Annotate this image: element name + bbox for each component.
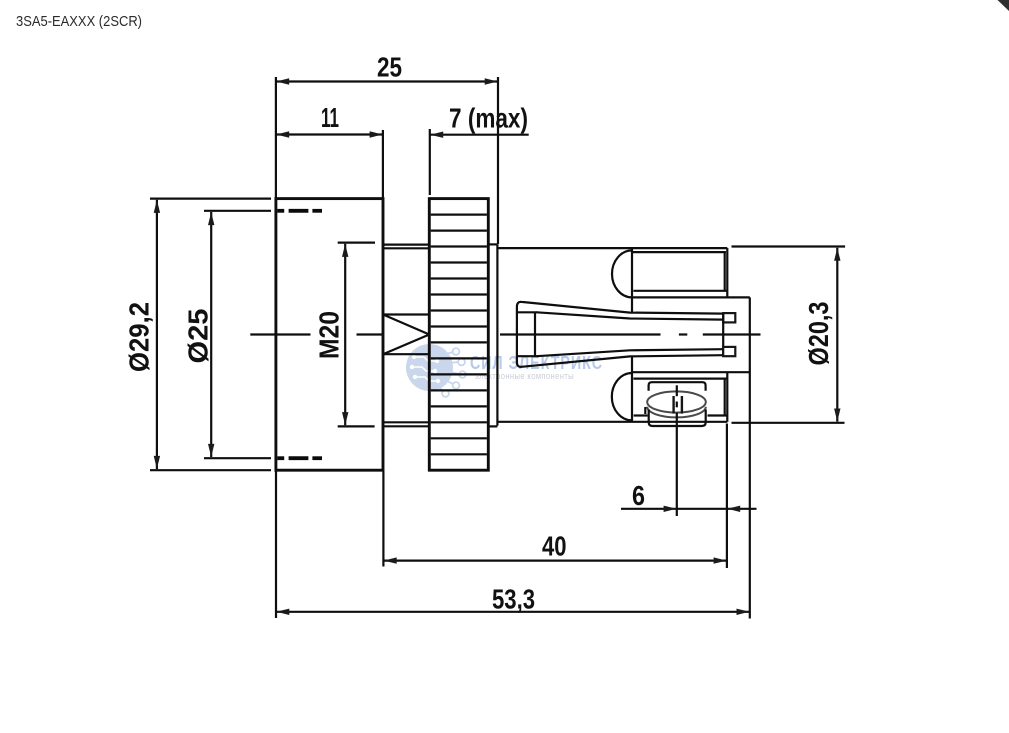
screw clamp lower bracket [649,410,706,427]
lamp block left edge upper [631,248,633,313]
terminal inner top line [633,378,727,380]
terminal inner bottom line left [634,414,648,416]
clip bottom bar [516,355,538,357]
screw axis centerline [676,385,678,516]
svg-text:Ø20,3: Ø20,3 [803,302,834,366]
clamp left foot [644,407,646,414]
bezel outline [276,199,383,471]
dimension 53,3 [276,471,750,618]
body top edge [497,247,727,249]
terminal inner bottom line right [708,414,727,416]
terminal screw head [647,391,706,412]
bezel hidden dashed line top [277,209,322,213]
clip inner vertical [534,312,536,356]
screw head lower arc [647,407,706,418]
dimension 7 (max) [430,102,529,195]
svg-text:7 (max): 7 (max) [449,102,528,133]
svg-text:Ø25: Ø25 [183,309,214,364]
bump arc bottom [612,373,632,420]
svg-text:40: 40 [542,531,567,562]
block bottom / housing top line [631,296,750,298]
body bottom edge [497,421,727,423]
prong tab connector edge [722,313,724,356]
nut ring outline [429,199,488,471]
svg-text:25: 25 [377,52,402,83]
svg-text:электронные компоненты: электронные компоненты [475,371,574,381]
body left edge [496,244,498,426]
svg-text:3SA5-EAXXX (2SCR): 3SA5-EAXXX (2SCR) [16,13,142,30]
dimension 40 [383,471,727,567]
dimension 25 [276,52,498,245]
clip inner bottom line [537,349,724,356]
dimension 11 [276,102,383,199]
lamp block left edge lower [631,356,633,422]
clip inner top line [537,312,724,319]
dimension D20,3 [732,247,846,423]
dimension D29,2 [124,199,272,471]
housing bottom / terminal top line [631,371,750,373]
bump arc top [612,250,632,297]
block inner bottom line [633,290,727,292]
dimension D25 [183,211,272,458]
svg-text:53,3: 53,3 [492,584,535,615]
nut thread lines [431,215,487,455]
block right edge upper [726,248,728,297]
threaded stem outline [383,244,497,426]
block inner right edge lower [724,379,726,416]
clip top bar [516,311,538,313]
block right edge lower [726,372,728,422]
dimension 6 [621,424,757,569]
svg-text:Ø29,2: Ø29,2 [124,302,155,372]
svg-text:6: 6 [632,480,645,511]
block inner right edge upper [724,252,726,291]
screw slot [674,396,682,414]
block inner top line [633,251,726,253]
upper prong tab [723,313,735,322]
dimension M20 [314,243,376,427]
retaining clip outer contour [517,302,723,367]
svg-text:11: 11 [321,102,339,133]
centerline horizontal [250,333,760,335]
watermark logo circle [406,344,466,397]
svg-text:M20: M20 [314,311,345,359]
page corner triangle [998,0,1009,11]
lower prong tab [723,347,735,356]
screw clamp upper bracket [649,382,706,391]
bezel hidden dashed line bottom [277,456,322,460]
plunger lines and cone [383,315,429,355]
rear housing right edge and 53,3 extension [749,297,751,618]
